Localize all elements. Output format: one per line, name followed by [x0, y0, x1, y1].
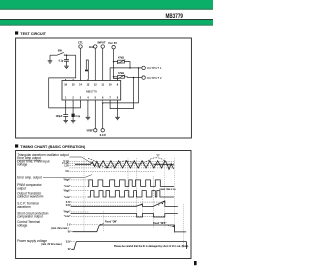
wire pin 4 to ground — [87, 101, 89, 117]
svg-text:47kΩ: 47kΩ — [118, 72, 124, 75]
svg-text:9: 9 — [117, 83, 119, 86]
svg-text:0V: 0V — [68, 231, 71, 233]
svg-text:10: 10 — [109, 83, 112, 86]
svg-text:comparator output: comparator output — [17, 215, 43, 219]
pointer from oscillator label — [70, 157, 98, 167]
svg-text:Fixed "OFF": Fixed "OFF" — [153, 223, 166, 225]
svg-text:"Low": "Low" — [64, 216, 71, 218]
waveform: PWM comparator output — [88, 180, 174, 187]
waveform: short circuit protection comparator output — [71, 214, 178, 218]
svg-text:Vcc 5V: Vcc 5V — [108, 41, 117, 45]
event guide vcc off — [183, 204, 185, 248]
svg-text:0.1µ: 0.1µ — [75, 115, 80, 118]
terminal OUTPUT 1 — [142, 66, 145, 69]
svg-text:1.20: 1.20 — [64, 165, 69, 167]
capacitor C1 0.1u — [66, 55, 68, 59]
svg-text:16: 16 — [64, 83, 67, 86]
section header: TIMING CHART — [15, 144, 86, 149]
event guide scp trip 1 — [136, 158, 138, 218]
ground (switch ground) — [48, 61, 53, 63]
pin 13 stub (top) — [87, 79, 89, 81]
junction pin6 node — [102, 102, 104, 104]
level dash scp upper — [71, 201, 166, 203]
junction Vcc rail / R1 — [113, 61, 115, 63]
svg-text:(min. 3V thru max.): (min. 3V thru max.) — [41, 243, 62, 246]
svg-text:13: 13 — [87, 83, 90, 86]
svg-text:0.6: 0.6 — [65, 171, 69, 173]
level dash pwm low — [71, 185, 89, 187]
header green banner top — [0, 0, 213, 26]
svg-text:waveform: waveform — [17, 205, 31, 209]
svg-text:OUTPUT 1: OUTPUT 1 — [147, 66, 162, 70]
event guide ctl on — [102, 211, 104, 232]
wire pin 5 to VREF terminal — [94, 101, 96, 129]
page number block — [194, 261, 197, 265]
pin 7 stub (bottom) — [109, 100, 111, 102]
svg-text:output: output — [17, 186, 26, 190]
svg-text:11: 11 — [101, 83, 104, 86]
capacitor C3 0.1u on pin 2 (electrolytic) — [72, 101, 74, 114]
pin 2 stub (bottom) — [72, 100, 74, 102]
terminal INPUT — [101, 45, 104, 48]
switch SW — [57, 52, 64, 55]
event guide event a — [127, 158, 129, 198]
svg-text:Power supply voltage: Power supply voltage — [17, 239, 47, 243]
ground (C2 ground) — [63, 120, 68, 122]
wire CTL terminal to pin 14 — [80, 48, 82, 79]
ground (pin8 ground) — [115, 117, 120, 119]
level dash vcc 0V — [71, 248, 74, 250]
section header: TEST CIRCUIT — [15, 31, 47, 36]
level dash ctl 2V — [71, 224, 98, 226]
svg-text:3: 3 — [80, 97, 82, 100]
capacitor C2 100uF on pin 1 — [65, 101, 67, 115]
pin 6 stub (bottom) — [102, 100, 104, 102]
pin 9 stub (top) — [117, 79, 119, 81]
svg-text:tₚ: tₚ — [158, 203, 160, 206]
wire terminal to pin 12 — [94, 48, 96, 79]
level dash cmp high — [71, 211, 89, 213]
svg-text:"Low": "Low" — [64, 197, 71, 199]
test point hook on pin 13 — [86, 60, 88, 80]
wire to switch — [50, 54, 57, 56]
svg-text:DEAD TIME 0.5%: DEAD TIME 0.5% — [160, 188, 176, 191]
wire switch node loop to pin 3 — [49, 55, 81, 108]
svg-text:"High": "High" — [63, 190, 70, 192]
level dash VT low2 — [70, 167, 175, 169]
IC U1 MB3779 — [62, 81, 121, 101]
junction out1 drop — [138, 67, 140, 69]
svg-text:8: 8 — [117, 97, 119, 100]
pin 15 stub (top) — [72, 79, 74, 81]
terminal Vcc — [112, 46, 115, 49]
level dash vcc level — [71, 241, 76, 243]
level dash DT level — [70, 170, 156, 172]
pin 4 stub (bottom) — [87, 100, 89, 102]
error amp fixed level after latch — [154, 164, 174, 166]
svg-text:0V: 0V — [68, 249, 71, 251]
wire switch to node — [64, 54, 75, 56]
timing chart frame — [16, 151, 191, 259]
pin 8 stub (bottom) — [117, 100, 119, 102]
resistor R2 47k (variable) — [114, 76, 118, 78]
wire ground up to switch — [49, 55, 51, 61]
svg-text:0.7V: 0.7V — [66, 202, 71, 204]
wire Vcc terminal down right rail — [114, 49, 118, 79]
svg-text:2: 2 — [72, 97, 74, 100]
pin 12 stub (top) — [94, 79, 96, 81]
wire R1 to OUTPUT1 line — [124, 62, 130, 68]
level dash tr high — [71, 190, 89, 192]
ground (C1 ground) — [64, 66, 69, 68]
event guide ctl off — [174, 158, 176, 233]
wire INPUT terminal to pin 11 — [102, 48, 104, 79]
ground (pin4 ground) — [86, 117, 91, 119]
waveform: S.C.P. terminal — [71, 201, 178, 207]
level dash tr low — [71, 196, 89, 198]
ground (C3 ground) — [71, 120, 76, 122]
svg-text:MB3779: MB3779 — [166, 13, 184, 20]
wire OUTPUT1 line — [110, 68, 142, 79]
test circuit frame — [16, 38, 192, 138]
svg-text:6: 6 — [102, 97, 104, 100]
event guide t0 start — [83, 156, 85, 232]
svg-text:collector waveform: collector waveform — [17, 195, 44, 199]
svg-text:SW: SW — [58, 49, 63, 52]
svg-text:voltage: voltage — [17, 163, 27, 167]
waveform: control terminal voltage — [73, 225, 187, 232]
underline of Error amp output legend — [17, 159, 41, 161]
svg-text:"High": "High" — [63, 212, 70, 214]
svg-text:CTL: CTL — [78, 40, 84, 44]
waveform: triangular oscillator output — [75, 161, 174, 170]
svg-text:47kΩ: 47kΩ — [118, 57, 124, 60]
svg-text:OUTPUT 2: OUTPUT 2 — [147, 76, 162, 80]
terminal OUTPUT 2 — [142, 76, 145, 79]
wire pin 6 to S.C.P. terminal — [102, 103, 104, 129]
pin 5 stub (bottom) — [94, 100, 96, 102]
pointer from error amp output label — [43, 175, 92, 178]
svg-text:TIMING CHART (BASIC OPERATION): TIMING CHART (BASIC OPERATION) — [20, 145, 86, 149]
junction switch node — [66, 54, 68, 56]
event guide scp end 1 — [142, 199, 144, 218]
svg-text:VREF: VREF — [87, 129, 94, 132]
level dash scp lower — [71, 204, 142, 206]
lower green band — [0, 20, 213, 25]
svg-text:0.1µ: 0.1µ — [59, 60, 64, 63]
level dash pwm high — [71, 179, 89, 181]
svg-text:0.5V: 0.5V — [66, 205, 71, 207]
level dash ctl 0V — [71, 231, 76, 233]
svg-text:S.C.P.: S.C.P. — [100, 134, 107, 137]
annotation above oscillator — [156, 155, 159, 157]
waveform: output transistor collector — [88, 191, 174, 197]
terminal S.C.P. — [101, 129, 104, 132]
svg-text:2 V: 2 V — [67, 225, 71, 227]
svg-text:(min. thru max.): (min. thru max.) — [51, 227, 68, 230]
svg-text:"Low": "Low" — [64, 186, 71, 188]
svg-text:1kΩ: 1kΩ — [89, 46, 94, 49]
level dash VT low — [70, 165, 175, 167]
wire pin 8 to ground — [117, 101, 119, 117]
waveform: power supply voltage — [72, 242, 187, 250]
svg-text:12: 12 — [94, 83, 97, 86]
svg-text:"High": "High" — [63, 180, 70, 182]
waveform: error amp output (dashed curve) — [88, 158, 165, 168]
pin 3 stub (bottom) — [80, 100, 82, 102]
svg-text:Error amp. output: Error amp. output — [17, 176, 42, 180]
svg-text:14: 14 — [79, 83, 82, 86]
svg-text:5.5V: 5.5V — [66, 241, 71, 243]
svg-text:TEST CIRCUIT: TEST CIRCUIT — [20, 32, 46, 36]
svg-text:voltage: voltage — [17, 223, 27, 227]
pin 14 stub (top) — [80, 79, 82, 81]
terminal CTL — [79, 45, 82, 48]
svg-text:MB3779: MB3779 — [86, 89, 97, 93]
level dash cmp low — [71, 215, 165, 217]
svg-text:1: 1 — [65, 97, 67, 100]
svg-text:7: 7 — [109, 97, 111, 100]
junction Vcc rail / R2 — [113, 76, 115, 78]
svg-text:5: 5 — [95, 97, 97, 100]
svg-text:4: 4 — [87, 97, 89, 100]
wire R2 to OUTPUT2 line — [124, 76, 127, 79]
svg-text:15: 15 — [72, 83, 75, 86]
junction out2 drop — [133, 77, 135, 79]
pin 1 stub (bottom) — [65, 100, 67, 102]
divider rule — [0, 18, 213, 21]
svg-text:100µF: 100µF — [56, 115, 63, 118]
level dash VT mid — [70, 163, 175, 165]
pin 10 stub (top) — [109, 79, 111, 81]
pin 16 stub (top) — [65, 79, 67, 81]
pin 11 stub (top) — [102, 79, 104, 81]
terminal VREF — [94, 129, 97, 132]
svg-text:Please be careful that the IC: Please be careful that the IC is damaged… — [114, 245, 188, 248]
level dash VT high — [70, 161, 175, 163]
terminal IN- — [94, 45, 97, 48]
wire OUTPUT2 line — [128, 77, 142, 79]
event guide scp trip 2 — [153, 176, 155, 228]
junction R1/out1 — [129, 67, 131, 69]
resistor R1 47k (variable) — [114, 61, 118, 63]
svg-text:INPUT: INPUT — [97, 40, 105, 44]
svg-text:Fixed "ON": Fixed "ON" — [105, 222, 117, 224]
event guide scp end 2 — [164, 158, 166, 228]
